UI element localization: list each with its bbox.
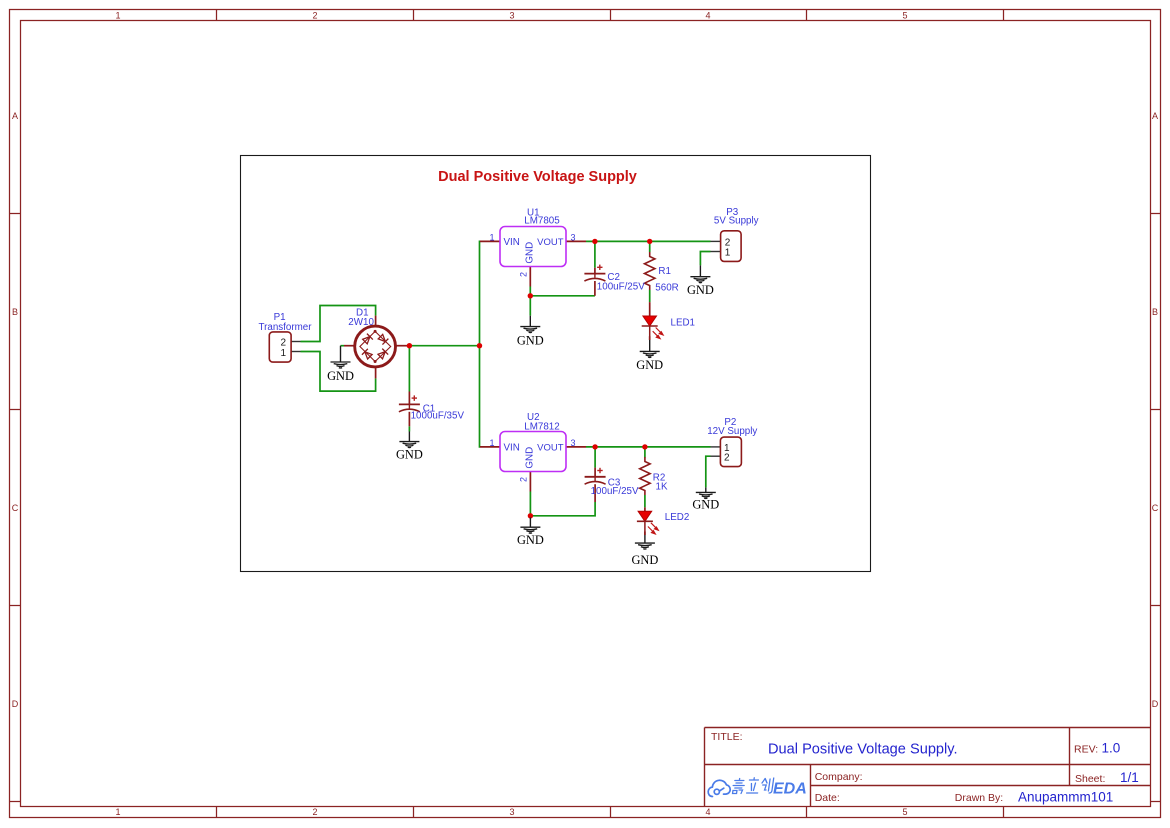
- svg-text:100uF/25V: 100uF/25V: [591, 486, 639, 497]
- svg-text:1.0: 1.0: [1102, 741, 1121, 756]
- svg-text:D: D: [1152, 699, 1159, 709]
- svg-text:GND: GND: [631, 553, 658, 567]
- svg-text:4: 4: [705, 10, 710, 20]
- svg-text:2: 2: [519, 272, 529, 277]
- svg-text:1/1: 1/1: [1120, 770, 1139, 785]
- svg-text:GND: GND: [525, 447, 536, 469]
- svg-text:GND: GND: [687, 283, 714, 297]
- svg-text:VOUT: VOUT: [537, 237, 564, 248]
- svg-text:1: 1: [489, 232, 494, 242]
- svg-text:5V Supply: 5V Supply: [714, 215, 759, 226]
- svg-text:LM7805: LM7805: [524, 216, 560, 227]
- svg-text:GND: GND: [327, 369, 354, 383]
- svg-text:LED2: LED2: [665, 512, 690, 523]
- svg-text:A: A: [1152, 111, 1158, 121]
- svg-text:A: A: [12, 111, 18, 121]
- svg-text:GND: GND: [396, 448, 423, 462]
- svg-text:GND: GND: [525, 242, 536, 264]
- svg-text:2: 2: [725, 237, 731, 248]
- svg-text:VIN: VIN: [504, 237, 520, 248]
- svg-text:1: 1: [489, 438, 494, 448]
- svg-text:1: 1: [725, 248, 731, 259]
- svg-text:1000uF/35V: 1000uF/35V: [411, 411, 465, 422]
- svg-text:REV:: REV:: [1074, 744, 1098, 756]
- svg-text:2: 2: [312, 10, 317, 20]
- svg-text:LM7812: LM7812: [524, 421, 559, 432]
- svg-text:2: 2: [312, 807, 317, 817]
- svg-text:Anupammm101: Anupammm101: [1018, 790, 1113, 805]
- svg-text:B: B: [12, 307, 18, 317]
- svg-text:2W10: 2W10: [348, 317, 374, 328]
- svg-text:3: 3: [509, 10, 514, 20]
- svg-text:1: 1: [115, 10, 120, 20]
- svg-text:3: 3: [570, 232, 575, 242]
- svg-text:C: C: [12, 503, 19, 513]
- svg-text:Sheet:: Sheet:: [1075, 773, 1105, 785]
- svg-text:B: B: [1152, 307, 1158, 317]
- svg-text:4: 4: [705, 807, 710, 817]
- svg-text:GND: GND: [517, 334, 544, 348]
- svg-text:Company:: Company:: [815, 771, 863, 783]
- svg-text:R1: R1: [658, 266, 671, 277]
- svg-text:LED1: LED1: [671, 317, 696, 328]
- svg-text:GND: GND: [636, 358, 663, 372]
- svg-text:Dual Positive Voltage Supply: Dual Positive Voltage Supply: [438, 169, 637, 185]
- svg-text:3: 3: [570, 438, 575, 448]
- svg-text:2: 2: [724, 452, 730, 463]
- svg-text:Dual Positive Voltage Supply.: Dual Positive Voltage Supply.: [768, 742, 958, 758]
- svg-text:560R: 560R: [655, 283, 678, 294]
- svg-text:GND: GND: [517, 533, 544, 547]
- svg-text:Drawn By:: Drawn By:: [955, 792, 1003, 804]
- svg-text:1K: 1K: [656, 482, 668, 493]
- svg-text:D: D: [12, 699, 19, 709]
- svg-text:VOUT: VOUT: [537, 442, 564, 453]
- svg-text:3: 3: [509, 807, 514, 817]
- svg-text:VIN: VIN: [504, 442, 520, 453]
- svg-text:TITLE:: TITLE:: [711, 731, 743, 743]
- svg-text:5: 5: [902, 807, 907, 817]
- svg-text:C: C: [1152, 503, 1159, 513]
- svg-text:12V Supply: 12V Supply: [707, 426, 757, 437]
- svg-text:1: 1: [115, 807, 120, 817]
- svg-text:100uF/25V: 100uF/25V: [597, 282, 645, 293]
- svg-text:1: 1: [281, 348, 287, 359]
- svg-text:EDA: EDA: [773, 781, 807, 798]
- svg-text:2: 2: [519, 477, 529, 482]
- svg-text:Transformer: Transformer: [259, 322, 313, 333]
- svg-text:5: 5: [902, 10, 907, 20]
- svg-text:GND: GND: [692, 498, 719, 512]
- svg-text:Date:: Date:: [815, 792, 840, 804]
